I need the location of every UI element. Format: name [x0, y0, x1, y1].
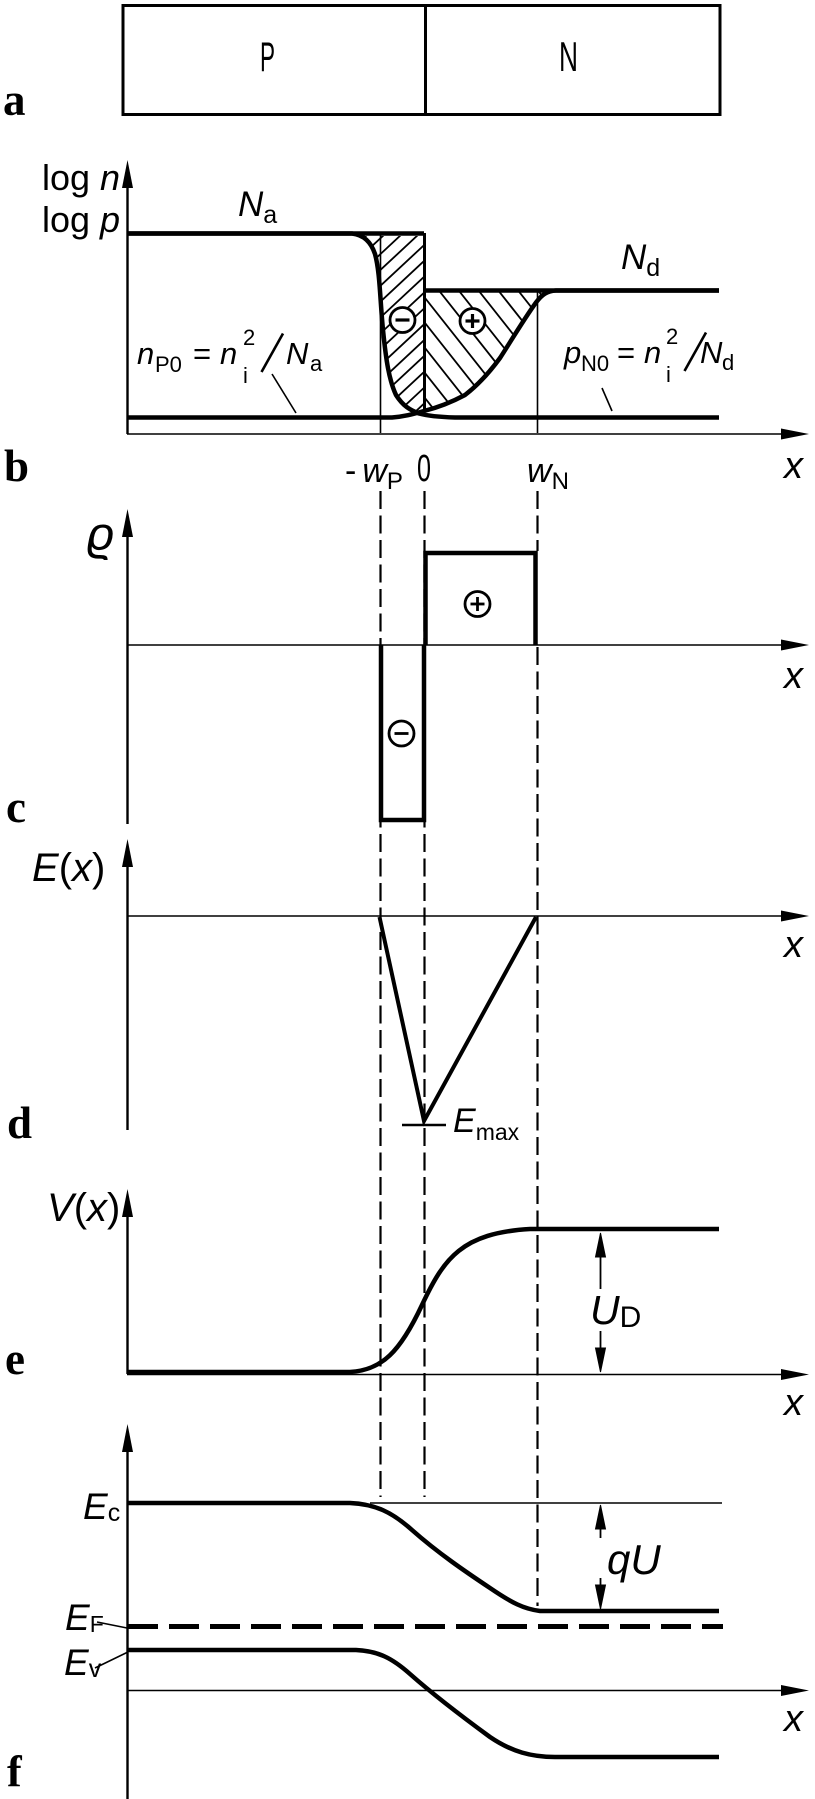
- x-axis of panel f: [127, 1690, 786, 1692]
- x-axis of panel d: [127, 915, 786, 917]
- hatched positive space-charge region (right): [0, 215, 815, 435]
- svg-text:c: c: [6, 782, 26, 832]
- leader line to EF: [97, 1622, 127, 1628]
- svg-text:f: f: [7, 1747, 23, 1796]
- svg-text:log p: log p: [42, 199, 120, 240]
- svg-text:x: x: [782, 1382, 805, 1424]
- svg-text:qU: qU: [607, 1536, 661, 1583]
- electron concentration n(x) curve: [128, 291, 719, 418]
- minus charge symbol (panel c): [389, 721, 414, 746]
- svg-text:0: 0: [417, 448, 431, 490]
- Emax tick mark: [402, 1124, 446, 1126]
- x-axis arrowhead panel b: [781, 429, 809, 440]
- valence band edge Ev curve: [128, 1650, 719, 1757]
- leader line from nP0 formula: [272, 374, 296, 413]
- x-axis of panel e: [127, 1374, 786, 1376]
- svg-text:b: b: [4, 441, 29, 491]
- y-axis arrowhead panel d: [122, 839, 133, 867]
- y-axis of panel b: [126, 185, 128, 434]
- y-axis arrowhead panel b: [122, 160, 133, 188]
- x-axis arrowhead panel e: [781, 1369, 809, 1380]
- thin vertical marker at -wP (panel b): [380, 235, 382, 433]
- thin Ec reference line: [370, 1502, 722, 1504]
- svg-text:d: d: [7, 1098, 32, 1148]
- y-axis of panel e: [126, 1212, 128, 1374]
- leader line to Ev: [95, 1652, 128, 1668]
- semiconductor bar outline (panel a): [123, 6, 720, 115]
- acceptor doping level Na line: [128, 231, 424, 236]
- svg-text:x: x: [782, 924, 805, 966]
- y-axis arrowhead panel c: [122, 509, 133, 537]
- y-axis of panel d: [126, 862, 128, 1130]
- dashed guide line at -wP: [379, 491, 381, 1497]
- y-axis arrowhead panel f: [122, 1424, 133, 1452]
- electric field E(x) triangle curve: [380, 917, 537, 1121]
- svg-text:N: N: [559, 33, 578, 80]
- y-axis of panel c: [126, 530, 128, 824]
- svg-text:x: x: [782, 655, 805, 697]
- doping step vertical at x=0: [423, 233, 426, 411]
- y-axis of panel f: [126, 1449, 128, 1799]
- svg-text:E(x): E(x): [32, 846, 105, 890]
- x-axis of panel c: [127, 644, 786, 646]
- thin vertical marker at wN (panel b): [537, 291, 539, 433]
- dashed guide line at wN: [536, 491, 538, 1606]
- hatched negative space-charge region (left): [0, 220, 815, 440]
- qU dimension arrow: [596, 1505, 606, 1609]
- svg-text:ϱ: ϱ: [87, 507, 114, 560]
- donor doping level Nd line: [423, 288, 719, 293]
- dashed guide line at 0: [423, 491, 425, 1497]
- svg-text:V(x): V(x): [47, 1186, 120, 1230]
- svg-text:e: e: [5, 1334, 25, 1384]
- x-axis arrowhead panel f: [781, 1685, 809, 1696]
- x-axis arrowhead panel d: [781, 911, 809, 922]
- svg-text:x: x: [782, 1698, 805, 1740]
- svg-text:P: P: [260, 33, 275, 80]
- y-axis arrowhead panel e: [122, 1189, 133, 1217]
- svg-text:x: x: [782, 445, 805, 487]
- Fermi level EF dashed line: [128, 1624, 723, 1629]
- plus charge symbol (panel c): [465, 592, 490, 617]
- UD dimension arrow: [596, 1233, 606, 1372]
- potential V(x) curve: [128, 1229, 719, 1372]
- svg-text:log n: log n: [42, 157, 120, 198]
- positive charge density rectangle: [426, 553, 536, 645]
- x-axis arrowhead panel c: [781, 640, 809, 651]
- x-axis of panel b: [127, 433, 786, 435]
- negative charge density rectangle: [381, 645, 424, 820]
- conduction band edge Ec curve: [128, 1503, 719, 1611]
- svg-text:a: a: [3, 75, 26, 125]
- leader line from pN0 formula: [602, 388, 612, 411]
- minus charge symbol (panel b): [390, 308, 415, 333]
- hole concentration p(x) curve: [128, 234, 719, 418]
- plus charge symbol (panel b): [460, 309, 485, 334]
